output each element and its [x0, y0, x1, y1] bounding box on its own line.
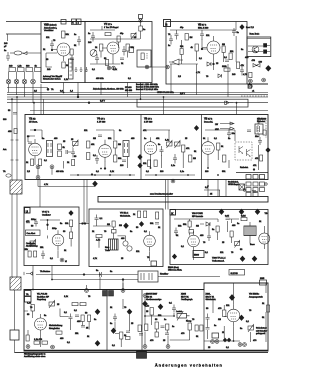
pot circle VT — [90, 50, 97, 57]
capacitor C24 — [225, 216, 230, 220]
svg-text:1M: 1M — [190, 37, 193, 39]
node J6 — [253, 169, 255, 171]
node Jb2 — [213, 63, 215, 65]
svg-text:NF-Vorstufe: NF-Vorstufe — [192, 215, 204, 218]
test point diamond Y5b — [138, 163, 142, 168]
svg-text:T360 TF-2-1-4: T360 TF-2-1-4 — [212, 258, 226, 260]
component box pair — [58, 144, 66, 157]
capacitor C3 — [70, 55, 74, 63]
wire drop y4 — [86, 180, 88, 224]
component bits mid — [126, 331, 131, 340]
svg-text:Zwischenkreis-Abstimm. 460 kHz: Zwischenkreis-Abstimm. 460 kHz — [93, 88, 124, 91]
svg-text:UKW-Empf.: UKW-Empf. — [228, 184, 239, 186]
capacitor C7 — [175, 27, 185, 40]
tube Y4 — [99, 140, 112, 162]
wire k extra — [218, 219, 232, 243]
terminal edge1 — [85, 289, 89, 293]
resistor R52 — [26, 335, 29, 341]
node antenna stub left — [4, 34, 8, 48]
resistor R24 — [87, 153, 90, 160]
wire AVC bus — [7, 87, 48, 89]
resistor R61 — [105, 33, 111, 36]
resistor R28 — [154, 160, 157, 167]
terminal Y5 — [171, 179, 175, 183]
wire dashed segment — [241, 95, 268, 97]
resistor R20 — [26, 159, 34, 166]
block Netz indicator — [247, 37, 271, 57]
tube U — [52, 230, 64, 251]
tube YB — [202, 137, 215, 159]
wire drop yb2 — [217, 180, 219, 197]
hatched box lower — [10, 277, 21, 290]
svg-text:1M: 1M — [118, 144, 121, 146]
label YU title — [120, 213, 131, 218]
resistor R66 — [216, 226, 219, 232]
box Oszillator-Abst — [26, 230, 41, 236]
capacitor C14 — [93, 155, 99, 164]
connector K — [72, 19, 77, 25]
terminal hf — [60, 258, 67, 263]
label U more — [26, 221, 63, 248]
label Y4 — [97, 118, 106, 124]
test point diamond YU — [124, 223, 129, 228]
node Jy1 — [34, 129, 36, 131]
wire stub group left mid — [28, 93, 68, 143]
capacitor C44 — [28, 142, 32, 144]
node J7 — [47, 224, 49, 226]
wire b drops — [171, 84, 228, 97]
test point diamond bb5 — [143, 301, 148, 306]
label cluster V2B values — [46, 34, 77, 71]
svg-text:Netz: Netz — [105, 246, 109, 249]
label cluster U values — [31, 226, 67, 261]
resistor R29 — [182, 145, 191, 152]
diode D3 — [200, 222, 210, 226]
label VT17b title — [198, 24, 209, 30]
node J3 — [77, 96, 79, 98]
resistor R51 — [72, 303, 86, 306]
wire to block — [30, 52, 41, 54]
label cluster B values — [168, 34, 244, 76]
capacitor C26 — [207, 233, 211, 242]
svg-text:1M: 1M — [193, 158, 196, 160]
resistor R23 — [87, 141, 96, 148]
wire midblock drops — [64, 157, 230, 169]
tube X out — [227, 304, 240, 327]
wire VT bottom — [90, 52, 128, 65]
jack plug left arrow — [225, 101, 234, 104]
resistor R35 — [34, 251, 37, 257]
svg-text:Ant.: Ant. — [3, 148, 7, 151]
terminal edge2 — [121, 289, 125, 293]
label feeder — [3, 119, 7, 151]
node J10 — [83, 274, 85, 276]
terminal s4a — [211, 340, 215, 344]
svg-text:TA-Buchse: TA-Buchse — [40, 270, 51, 273]
feeder pair left — [11, 97, 19, 180]
wire bus2 — [7, 94, 268, 96]
wire U right — [70, 227, 72, 247]
tube VB — [202, 36, 220, 60]
capacitor C43 — [200, 30, 204, 40]
label cluster B more — [178, 35, 249, 78]
resistor R1 row — [9, 66, 16, 72]
label U box — [25, 208, 31, 214]
potentiometer Laut — [176, 310, 190, 321]
connector stack TA — [25, 291, 32, 303]
network right — [165, 324, 169, 335]
label cluster VA values — [27, 296, 97, 340]
transistor Q1 — [169, 59, 183, 65]
svg-text:YB E50/Bc: YB E50/Bc — [249, 294, 259, 296]
corner box YU — [151, 261, 157, 266]
resistor R34 — [25, 249, 32, 257]
wire drop Y2c — [43, 99, 45, 114]
resistor R54 — [145, 306, 153, 316]
block B label box — [164, 20, 171, 27]
resistor R68 — [56, 331, 62, 334]
resistor R64 — [222, 46, 225, 53]
IF can V2B right — [69, 59, 74, 79]
box sect4 — [212, 333, 219, 338]
svg-text:E30, E 200: E30, E 200 — [198, 28, 209, 30]
block separator mid — [141, 290, 143, 352]
resistor R30 — [189, 155, 197, 162]
wire bottom row — [204, 340, 240, 342]
switch S3 — [22, 72, 27, 98]
block U oscillator — [24, 207, 79, 266]
capacitor C22 — [95, 215, 104, 223]
wire hor1 — [36, 274, 99, 276]
capacitor C15 — [120, 160, 126, 167]
wire y5 links — [146, 130, 183, 168]
svg-text:Ratiodet.: Ratiodet. — [240, 166, 249, 169]
tube YB out — [259, 233, 270, 249]
resistor R70 — [263, 130, 266, 135]
capacitor C4 — [139, 26, 146, 31]
label E360 blau — [168, 267, 182, 272]
wire B vertical right — [235, 36, 237, 62]
hatched box antenna network — [10, 180, 22, 194]
diode D1 — [207, 62, 211, 66]
capacitor C10 dark — [264, 44, 267, 54]
label midband more — [70, 91, 185, 103]
wire b extra — [182, 39, 224, 64]
tube VA — [35, 314, 47, 335]
label U title — [42, 212, 51, 217]
resistor R31 — [217, 143, 225, 150]
filter box — [138, 271, 158, 282]
test point diamond K2 — [239, 209, 244, 214]
wire yb right — [258, 117, 260, 137]
diode pair D2 — [253, 62, 263, 68]
wire yb links — [205, 130, 259, 170]
label cluster YB values — [203, 136, 259, 173]
wire sect4 links — [208, 299, 269, 342]
switch S2 — [14, 72, 19, 95]
box VT right — [129, 47, 134, 53]
svg-text:Netzstecker ziehen: Netzstecker ziehen — [43, 78, 62, 81]
potentiometer P5 — [235, 241, 240, 248]
wire link left — [38, 180, 95, 187]
component row E30 plugs — [246, 175, 265, 180]
wire drop V2B — [77, 83, 79, 98]
label right notes — [125, 87, 133, 92]
block separator YB — [201, 115, 203, 180]
wire mid links — [115, 299, 130, 347]
svg-text:Ausführung siehe oben: Ausführung siehe oben — [24, 355, 46, 358]
wire y4 links — [96, 130, 115, 169]
svg-text:Differenz-Glatt.: Differenz-Glatt. — [168, 269, 182, 272]
label cluster mid values — [110, 307, 134, 347]
switch box X — [239, 184, 245, 190]
label right notes2 — [256, 327, 267, 336]
dashed vertical r1 — [257, 120, 259, 134]
tube VT — [102, 42, 119, 60]
block K AF — [170, 210, 268, 265]
resistor R13 — [243, 72, 252, 77]
circle E1 — [123, 241, 132, 251]
test point diamond K6 — [252, 256, 257, 261]
block B ZF amplifier — [166, 22, 247, 85]
resistor R32 — [223, 155, 226, 162]
trimmer P1 — [71, 139, 78, 148]
loudspeaker dark box — [137, 352, 147, 359]
svg-text:VB 17 b: VB 17 b — [198, 24, 207, 27]
block separator Y5 — [140, 115, 142, 180]
cable harness long box — [98, 197, 268, 203]
label YB title — [249, 294, 264, 299]
svg-text:Ratiodet.: Ratiodet. — [257, 120, 266, 123]
wire drop B2 — [236, 103, 238, 115]
capacitor C42 — [169, 35, 173, 45]
jack plug left2 — [24, 272, 33, 275]
wire YU links — [93, 223, 150, 262]
plug symbol — [22, 52, 30, 55]
svg-text:ZF 460: ZF 460 — [125, 87, 132, 89]
svg-text:Treibertransf.: Treibertransf. — [212, 260, 225, 263]
svg-text:Y4 17 b: Y4 17 b — [97, 118, 106, 121]
capacitor C13 — [71, 148, 75, 158]
svg-text:Gleichricht.: Gleichricht. — [120, 215, 131, 218]
resistor R5 — [62, 31, 70, 38]
wire drop yb1 — [207, 180, 209, 197]
svg-text:Gleichricht.: Gleichricht. — [206, 298, 217, 301]
wire B bottom — [170, 22, 236, 71]
capacitor C41 — [91, 32, 95, 42]
label cluster sect3 values — [150, 319, 199, 342]
label E30 right — [257, 119, 267, 124]
svg-text:MF 460: MF 460 — [125, 90, 133, 92]
test point diamond K4 — [172, 254, 176, 259]
resistor R3 — [26, 66, 33, 72]
capacitor C20 — [31, 219, 38, 227]
trimmer P4 — [30, 240, 36, 248]
label VT title — [104, 23, 119, 29]
tube Y2 — [29, 139, 42, 161]
feeder lower — [11, 276, 13, 278]
resistor R8 — [126, 44, 135, 51]
resistor R6 — [62, 62, 69, 68]
terminal edge3 — [143, 294, 147, 298]
svg-text:YB 17 b: YB 17 b — [204, 118, 213, 121]
component 400 — [8, 129, 17, 134]
resistor R33 — [255, 155, 263, 161]
capacitor C47 — [75, 315, 79, 317]
svg-text:0,5M: 0,5M — [241, 216, 246, 218]
label cluster sect4 values — [206, 308, 265, 342]
box E360 — [193, 251, 204, 258]
wire hor1c — [158, 276, 220, 278]
wire K links — [174, 219, 264, 260]
dashed vertical r2 — [265, 120, 267, 138]
IF can box — [137, 50, 151, 67]
wire hor1b — [102, 274, 138, 276]
node J2 — [88, 102, 90, 104]
label switch area — [205, 187, 213, 196]
label VT more — [96, 78, 132, 80]
svg-text:X36L: X36L — [206, 294, 212, 296]
label X36L title — [206, 294, 217, 302]
capacitor C19 — [258, 137, 262, 145]
wire sect3 links — [145, 304, 190, 345]
transformer T360 — [244, 226, 256, 236]
terminal VA1 — [26, 345, 30, 349]
capacitor C32 — [169, 303, 176, 313]
node J11 — [122, 279, 124, 281]
resistor R41 — [144, 211, 147, 218]
svg-text:MW: MW — [215, 129, 219, 131]
test point diamond YBr — [266, 148, 270, 153]
terminal s4b — [215, 340, 219, 344]
block separator VA — [106, 290, 108, 352]
svg-text:1M: 1M — [93, 138, 96, 140]
capacitor C49 — [252, 191, 256, 193]
connector dark pair — [103, 291, 114, 297]
terminal T1 — [249, 79, 253, 88]
capacitor C8 — [232, 28, 240, 36]
capacitor C48 — [240, 66, 244, 76]
svg-text:Verstärker: Verstärker — [44, 29, 54, 32]
feeder to ground — [14, 340, 16, 353]
capacitor C45 — [98, 135, 102, 137]
transistor pair dashed box — [235, 142, 252, 160]
svg-text:Geheimtast: Geheimtast — [256, 327, 267, 330]
svg-text:Y5 17 b: Y5 17 b — [144, 118, 153, 121]
svg-text:YB: YB — [265, 213, 268, 215]
wire drop v2b left — [63, 83, 65, 93]
node J9 — [84, 223, 86, 225]
trimmer P6 — [49, 301, 55, 309]
capacitor C23 — [155, 223, 159, 225]
label V2B title — [44, 24, 57, 33]
tube V20 — [188, 231, 200, 252]
resistor R36 — [65, 220, 73, 227]
test point diamond bb4 — [111, 328, 116, 333]
wire drop Y2b — [40, 84, 42, 115]
capacitor C25 — [174, 228, 178, 236]
svg-text:E360: E360 — [194, 255, 200, 257]
IF transformer can2 — [123, 141, 129, 157]
label cluster Y5 values — [143, 130, 197, 173]
svg-text:E36U/ E367: E36U/ E367 — [146, 294, 158, 296]
box small K — [189, 230, 194, 234]
label Gedrueckt — [228, 181, 239, 187]
svg-text:Trafo: Trafo — [105, 249, 111, 252]
svg-text:ZF-Verst.: ZF-Verst. — [29, 121, 38, 124]
resistor R12 — [237, 62, 245, 69]
svg-text:2 ZF 460: 2 ZF 460 — [144, 122, 153, 124]
terminal VA2 — [51, 345, 55, 349]
wire bottom bus links — [87, 283, 267, 304]
label Rueckkopplung — [24, 354, 46, 359]
terminal sw — [243, 183, 267, 191]
block separator right — [203, 290, 205, 352]
svg-text:1,2k 470: 1,2k 470 — [34, 339, 43, 341]
capacitor C50 — [122, 46, 126, 56]
svg-text:E360 (blau): E360 (blau) — [168, 267, 179, 269]
test point diamond bb3 — [127, 309, 132, 314]
trimmer P7 — [248, 325, 254, 333]
label cluster Y4 values — [84, 130, 135, 173]
label SL2740 — [229, 270, 245, 276]
component cluster VA — [81, 313, 91, 330]
component row VA bottom — [34, 339, 48, 344]
svg-text:V20 POWE: V20 POWE — [192, 213, 203, 215]
capacitor C46 — [247, 130, 251, 132]
resistor R55 — [186, 321, 203, 332]
terminal Y2c — [36, 175, 40, 179]
svg-text:zum Drucktastenschalter: zum Drucktastenschalter — [150, 193, 173, 196]
wire row1 — [32, 266, 33, 274]
svg-text:Lautst.: Lautst. — [176, 310, 183, 313]
svg-text:Änderungen vorbehalten: Änderungen vorbehalten — [155, 363, 223, 368]
label YU more — [105, 223, 154, 259]
wire drop Y2a — [33, 103, 35, 115]
svg-text:Osz-Abst: Osz-Abst — [27, 232, 36, 235]
switch S4 — [31, 72, 36, 103]
test point diamond bb0 — [229, 295, 234, 301]
network left — [138, 324, 148, 335]
resistor R11 — [222, 66, 230, 71]
svg-text:SL2740: SL2740 — [231, 273, 239, 275]
svg-text:Y2 K2: Y2 K2 — [29, 118, 36, 121]
wire vt drop2 — [101, 83, 128, 98]
capacitor C5 — [120, 58, 124, 60]
label Achtung note — [43, 75, 62, 81]
svg-text:V/L PCL86: V/L PCL86 — [37, 294, 48, 296]
label X365 title — [181, 294, 193, 302]
block output stage outline — [24, 283, 268, 351]
terminal bm2 — [166, 345, 170, 349]
terminal Y2a — [36, 165, 40, 169]
block bottom edge heavy — [24, 349, 268, 351]
capacitor C1 — [4, 50, 10, 61]
box OW5 on edge — [260, 278, 267, 285]
svg-text:1 Ton ZF-Regel: 1 Ton ZF-Regel — [104, 27, 119, 29]
tube V2B — [53, 43, 70, 61]
transformer TR1 — [109, 239, 119, 250]
resistor R38 — [107, 221, 115, 227]
wire bus6 — [30, 110, 268, 112]
wire drop B1 — [163, 97, 165, 115]
svg-text:mit Schalter: mit Schalter — [256, 329, 267, 332]
wire y2 links — [30, 130, 52, 175]
network mid — [155, 322, 165, 337]
svg-text:Oszillator: Oszillator — [42, 214, 51, 217]
svg-text:Bass: Bass — [250, 244, 255, 246]
label YB — [204, 118, 213, 124]
